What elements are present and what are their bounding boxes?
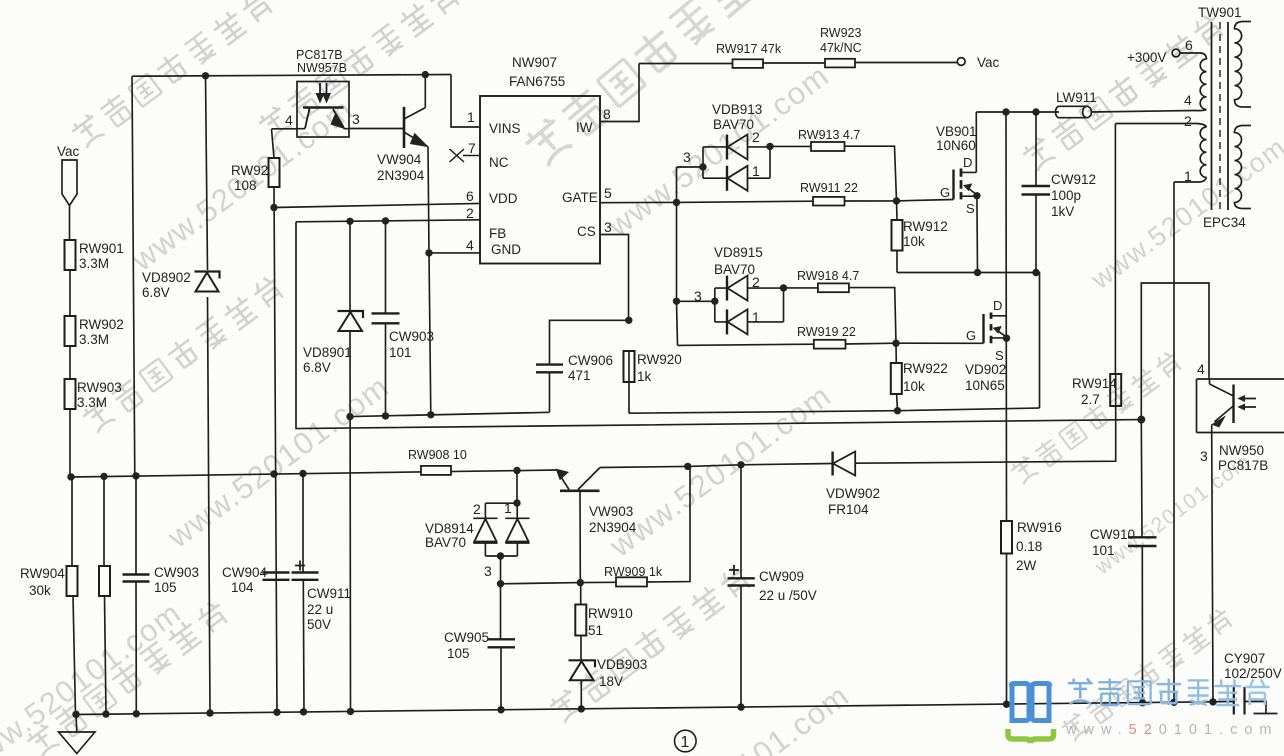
svg-text:2: 2	[1184, 113, 1192, 129]
diode pair VD8914 BAV70	[473, 471, 529, 584]
svg-text:3.3M: 3.3M	[77, 395, 107, 410]
capacitor CW909 22u/50V electrolytic	[728, 465, 755, 707]
node dot VD902 source	[1003, 335, 1010, 342]
svg-text:1: 1	[467, 109, 475, 125]
svg-text:GATE: GATE	[562, 190, 598, 205]
transformer primary winding pins 6-4	[1180, 53, 1207, 111]
wire transformer pin1 down to ground rail	[1173, 182, 1175, 702]
svg-text:22 u: 22 u	[307, 602, 333, 617]
svg-text:CW903: CW903	[154, 565, 199, 580]
ground symbol	[59, 715, 96, 754]
wire left vcc rail x=274 (PC817 pin4 / RW92 / CW904)	[272, 129, 278, 712]
node dots VD8915	[673, 284, 787, 305]
node dots collector line	[684, 461, 745, 470]
svg-text:FAN6755: FAN6755	[509, 74, 565, 89]
svg-text:TW901: TW901	[1198, 5, 1242, 20]
svg-text:VDB903: VDB903	[597, 657, 647, 672]
svg-text:RW901: RW901	[79, 241, 124, 256]
svg-text:5: 5	[604, 185, 612, 201]
wire emitter bus (long horizontal to VW903 emitter)	[71, 470, 556, 477]
node dots VD8914	[497, 499, 521, 587]
wire RW903 down to emitter bus	[69, 409, 71, 477]
VD8914 pin numbers	[473, 500, 512, 579]
svg-text:105: 105	[447, 646, 470, 661]
svg-text:VD902: VD902	[965, 362, 1006, 377]
svg-text:NW907: NW907	[512, 55, 557, 70]
svg-text:108: 108	[234, 178, 257, 193]
capacitor CW903 105 (bottom left)	[123, 476, 150, 714]
svg-text:CW909: CW909	[759, 569, 804, 584]
wire pin2 FB line	[296, 220, 480, 222]
svg-text:2: 2	[473, 501, 481, 517]
svg-text:2: 2	[466, 205, 474, 221]
pin7 NC no-connect X	[450, 149, 481, 162]
svg-text:30k: 30k	[29, 583, 51, 598]
svg-text:RW903: RW903	[77, 380, 122, 395]
resistor RW903 3.3M	[65, 379, 76, 409]
wire long vertical top rail to RW916 to ground	[1005, 112, 1008, 704]
transistor VW904 2N3904	[404, 107, 429, 148]
wire VW903 collector line (to VDW902 and RW914)	[600, 406, 1116, 468]
svg-text:101: 101	[389, 345, 412, 360]
svg-text:1k: 1k	[637, 369, 652, 384]
svg-text:1: 1	[504, 500, 512, 516]
svg-text:6: 6	[466, 188, 474, 204]
svg-text:3.3M: 3.3M	[79, 332, 109, 347]
wire transformer pin2 horizontal	[1115, 123, 1197, 125]
resistor RW901 3.3M	[65, 240, 76, 270]
svg-text:S: S	[966, 201, 975, 216]
svg-text:105: 105	[154, 580, 177, 595]
svg-text:18V: 18V	[599, 674, 623, 689]
wire FB-net vertical x=1141 and NW950 pin4 hook	[1141, 283, 1209, 703]
svg-text:RW914: RW914	[1072, 376, 1117, 391]
svg-text:GND: GND	[491, 242, 521, 257]
transformer TW901 core	[1212, 22, 1229, 210]
svg-text:BAV70: BAV70	[713, 117, 754, 132]
VD8915 pin numbers	[694, 274, 760, 325]
svg-text:www.520101.com: www.520101.com	[161, 368, 396, 555]
transformer pin numbers	[1184, 37, 1193, 184]
svg-text:www.520101.com: www.520101.com	[603, 377, 838, 564]
wire top +rail to LW911	[976, 111, 1059, 113]
svg-text:CW905: CW905	[444, 630, 489, 645]
resistor RW908 10 (on emitter bus)	[421, 466, 451, 475]
svg-text:RW902: RW902	[79, 317, 124, 332]
IC NW907 FAN6755	[480, 96, 600, 264]
symbol page number 1 circle	[675, 730, 697, 752]
wire zener-net horizontal to CW906	[350, 412, 550, 416]
transistor VD902 10N65 MOSFET	[984, 313, 1007, 344]
svg-text:102/250V: 102/250V	[1224, 666, 1282, 681]
svg-text:+300V: +300V	[1127, 50, 1166, 65]
resistor RW909 1k	[616, 577, 647, 586]
svg-text:22 u /50V: 22 u /50V	[759, 588, 817, 603]
capacitor CW906 471	[536, 320, 629, 412]
node dots VDB913	[699, 143, 773, 171]
capacitor CY907 102/250V	[1234, 687, 1278, 715]
svg-text:3: 3	[694, 288, 702, 304]
svg-text:104: 104	[231, 580, 254, 595]
wire pin6 VDD line	[274, 203, 480, 207]
diode pair VDB913 BAV70	[677, 135, 771, 191]
wire VB901 drain up to +rail	[975, 112, 977, 172]
svg-text:CW911: CW911	[307, 586, 351, 601]
svg-text:51: 51	[588, 623, 603, 638]
svg-text:100p: 100p	[1051, 188, 1081, 203]
svg-text:NC: NC	[489, 155, 509, 170]
node Vac input terminal	[62, 160, 77, 206]
svg-text:VD8914: VD8914	[425, 521, 474, 536]
svg-text:VINS: VINS	[489, 121, 521, 136]
wire RW917/RW923 line to Vac	[639, 63, 957, 64]
svg-text:IW: IW	[576, 120, 593, 135]
svg-text:Vac: Vac	[977, 55, 1000, 70]
node dot base	[577, 579, 584, 586]
svg-text:471: 471	[568, 368, 591, 383]
logo chinese title glyphs	[1068, 678, 1270, 705]
wire RW902-RW903	[69, 346, 71, 379]
svg-text:3: 3	[683, 149, 691, 165]
VB901 terminal letters	[940, 155, 975, 216]
wire RW904 branch	[72, 477, 76, 715]
wire bottom ground rail	[76, 702, 1234, 715]
zener VDB903 18V	[569, 660, 596, 709]
node junction dots on emitter bus	[67, 467, 520, 481]
wire PC817 pin4 to rail	[272, 128, 298, 130]
svg-text:RW908 10: RW908 10	[408, 448, 467, 462]
resistor RW92 108	[269, 158, 280, 187]
wire VW904 emitter down to GND net	[428, 147, 431, 415]
svg-text:RW917 47k: RW917 47k	[716, 42, 782, 56]
svg-text:10N65: 10N65	[965, 378, 1005, 393]
svg-text:VW904: VW904	[377, 152, 422, 167]
wire RW901-RW902	[69, 270, 71, 316]
node dots top rail	[1002, 108, 1039, 115]
svg-text:VD8902: VD8902	[142, 270, 191, 285]
resistor RW918 4.7 with wires	[784, 283, 897, 343]
svg-text:10k: 10k	[903, 379, 925, 394]
svg-text:RW912: RW912	[903, 219, 948, 234]
svg-text:10N60: 10N60	[936, 138, 976, 153]
wire pin4 GND line	[429, 252, 480, 254]
svg-text:PC817B: PC817B	[1218, 458, 1268, 473]
capacitor CW912 100p 1kV	[1022, 112, 1051, 273]
resistor RW917 47k	[733, 59, 764, 68]
capacitor CW911 22u 50V electrolytic	[292, 474, 319, 712]
svg-text:2N3904: 2N3904	[377, 168, 425, 183]
svg-text:RW910: RW910	[588, 606, 633, 621]
svg-text:RW913 4.7: RW913 4.7	[798, 128, 860, 142]
svg-text:D: D	[993, 298, 1002, 313]
resistor parallel with RW904	[99, 477, 110, 715]
svg-text:3: 3	[604, 219, 612, 235]
resistor RW910 51 chain	[575, 583, 586, 660]
svg-text:RW922: RW922	[903, 361, 948, 376]
diode pair VD8915 BAV70	[677, 276, 784, 335]
svg-text:VW903: VW903	[589, 504, 633, 519]
resistor RW916 0.18 2W	[1001, 521, 1012, 554]
svg-text:2N3904: 2N3904	[589, 520, 637, 535]
node dot FB-net	[1137, 416, 1145, 424]
svg-text:4: 4	[1197, 361, 1205, 377]
svg-text:8: 8	[603, 106, 611, 122]
svg-text:G: G	[966, 328, 976, 343]
resistor RW922 10k chain	[891, 343, 902, 411]
resistor RW913 4.7 with wires	[770, 142, 897, 201]
node dot RW919/RW922	[892, 340, 899, 347]
wire FB left leg down and long FB line to right	[296, 222, 1141, 429]
svg-text:6.8V: 6.8V	[142, 285, 170, 300]
svg-text:RW92: RW92	[231, 163, 268, 178]
svg-text:3: 3	[352, 111, 360, 127]
svg-text:3: 3	[484, 563, 492, 579]
svg-text:BAV70: BAV70	[714, 262, 755, 277]
wire pin3 CS dogleg down through RW920	[600, 235, 629, 414]
svg-text:0.18: 0.18	[1016, 539, 1042, 554]
svg-text:LW911: LW911	[1056, 90, 1097, 105]
svg-text:D: D	[963, 155, 972, 170]
resistor RW914 2.7 chain	[1110, 124, 1121, 407]
svg-text:Vac: Vac	[57, 144, 80, 159]
wire pin8 IW dogleg up to RW917 line	[600, 64, 639, 122]
svg-text:RW911 22: RW911 22	[800, 181, 858, 195]
wire mid rail (VB901 S / VD902 D)	[897, 273, 1040, 409]
svg-text:2: 2	[752, 129, 760, 145]
svg-text:1: 1	[752, 163, 760, 179]
node dot CS sense	[894, 407, 901, 414]
optocoupler NW950 labels	[1197, 361, 1208, 464]
capacitor CW904 104	[263, 573, 290, 580]
svg-text:BAV70: BAV70	[425, 535, 466, 550]
svg-text:3: 3	[1200, 448, 1208, 464]
svg-text:6.8V: 6.8V	[303, 360, 331, 375]
svg-text:CW903: CW903	[389, 329, 434, 344]
node dot VDD-rail	[270, 204, 277, 211]
transistor VW903 2N3904	[556, 468, 601, 583]
svg-text:CY907: CY907	[1224, 651, 1265, 666]
node dots mid rail	[974, 269, 1040, 276]
svg-text:47k/NC: 47k/NC	[820, 41, 862, 55]
node dot CS/CW906	[625, 317, 632, 324]
svg-text:50V: 50V	[307, 617, 331, 632]
node dots top wire	[202, 71, 429, 80]
wire LW911 to transformer pin4	[1091, 111, 1196, 113]
svg-text:RW920: RW920	[637, 352, 682, 367]
resistor RW912 10k chain	[892, 201, 903, 273]
resistor RW920 1k	[624, 351, 635, 382]
svg-text:1: 1	[1184, 168, 1192, 184]
svg-text:FB: FB	[489, 226, 506, 241]
svg-text:S: S	[995, 348, 1004, 363]
node +300V terminal	[1172, 49, 1180, 57]
transformer primary winding pins 2-1	[1174, 124, 1207, 183]
svg-text:RW904: RW904	[20, 566, 65, 581]
logo book icon blue pages	[1011, 684, 1049, 721]
capacitor CW910 101	[1128, 537, 1157, 546]
transistor VB901 10N60 MOSFET	[954, 169, 977, 200]
svg-text:2W: 2W	[1016, 558, 1037, 573]
svg-text:NW957B: NW957B	[297, 61, 347, 75]
wire RW919 line / VD902 gate line	[678, 343, 984, 345]
svg-text:2.7: 2.7	[1081, 392, 1100, 407]
wire NW950 pin3 down to ground rail	[1212, 433, 1213, 702]
wire VD8902 rail x=206	[206, 76, 211, 713]
node Vac terminal circle	[957, 58, 965, 66]
zener VD8902 6.8V	[195, 272, 220, 292]
svg-text:1: 1	[681, 734, 690, 751]
VDB913 pin numbers	[683, 129, 760, 179]
node dot VB901 source	[973, 192, 980, 199]
transformer secondary winding upper	[1235, 22, 1252, 108]
optocoupler NW957B PC817B box	[297, 82, 349, 138]
svg-text:7: 7	[468, 140, 476, 156]
svg-text:RW909 1k: RW909 1k	[604, 565, 663, 579]
capacitor CW903 101	[372, 221, 400, 416]
svg-text:3.3M: 3.3M	[79, 256, 109, 271]
wire PC817 pin3 to VW904 base	[349, 128, 404, 130]
svg-text:EPC34: EPC34	[1203, 215, 1246, 230]
wire left rail x=132 down to bus	[132, 76, 135, 476]
svg-text:FR104: FR104	[828, 502, 869, 517]
transformer secondary winding lower	[1235, 126, 1252, 209]
wire VW904 collector up to top wire	[424, 75, 426, 108]
resistor RW904 30k	[67, 566, 78, 596]
wire pin1 VINS dogleg	[451, 75, 480, 128]
wire Vac to RW901	[69, 206, 71, 241]
svg-text:CW912: CW912	[1051, 172, 1096, 187]
svg-text:101: 101	[1092, 543, 1115, 558]
svg-text:4: 4	[466, 237, 474, 253]
IC pin numbers	[466, 106, 612, 253]
svg-text:1: 1	[752, 309, 760, 325]
wire top-left horizontal	[132, 75, 451, 77]
svg-text:VD8901: VD8901	[303, 345, 352, 360]
svg-text:VB901: VB901	[936, 124, 977, 139]
svg-text:RW918 4.7: RW918 4.7	[797, 269, 859, 283]
inductor LW911	[1056, 106, 1092, 117]
resistor RW923 47k/NC	[825, 59, 855, 68]
svg-text:www.520101.com: www.520101.com	[621, 677, 856, 756]
svg-text:VDD: VDD	[489, 191, 518, 206]
VD902 terminal letters	[966, 298, 1004, 363]
svg-text:PC817B: PC817B	[296, 48, 343, 62]
svg-text:VDB913: VDB913	[712, 102, 762, 117]
optocoupler NW957B internals: light arrows and phototransistor	[297, 83, 349, 130]
logo green swoosh	[1008, 729, 1054, 743]
svg-text:1kV: 1kV	[1051, 204, 1074, 219]
wire CS sense line RW920 to RW922 bottom	[629, 408, 1040, 413]
svg-text:4: 4	[285, 112, 293, 128]
svg-text:RW919 22: RW919 22	[797, 325, 856, 339]
svg-text:10k: 10k	[903, 234, 925, 249]
node dots FB line	[346, 217, 389, 225]
capacitor CW905 105	[488, 584, 516, 710]
svg-text:2: 2	[752, 274, 760, 290]
zener VD8901 6.8V	[338, 221, 364, 711]
node dots bottom rail	[72, 698, 1216, 718]
svg-text:G: G	[940, 185, 950, 200]
node dot GND line	[425, 249, 432, 256]
svg-text:NW950: NW950	[1219, 443, 1264, 458]
svg-text:CW910: CW910	[1090, 527, 1135, 542]
svg-text:CW906: CW906	[568, 353, 613, 368]
wire RW909 line (base line)	[501, 466, 691, 583]
resistor RW902 3.3M	[65, 316, 76, 346]
wire gate-branch vertical x=677	[677, 167, 678, 345]
resistor RW911 22	[813, 197, 845, 206]
wire VB901 source down to mid rail	[976, 196, 979, 273]
svg-text:6: 6	[1185, 37, 1193, 53]
svg-text:VD8915: VD8915	[714, 245, 763, 260]
svg-text:www.520101.com: www.520101.com	[1065, 722, 1278, 738]
svg-text:www.520101.com: www.520101.com	[601, 57, 836, 244]
node dots GATE line	[673, 197, 900, 206]
wire pin5 GATE line	[600, 200, 954, 203]
svg-text:CS: CS	[577, 224, 596, 239]
svg-text:RW923: RW923	[820, 26, 862, 40]
resistor RW919 22	[814, 340, 846, 349]
svg-text:CW904: CW904	[222, 565, 268, 580]
svg-text:VDW902: VDW902	[826, 486, 880, 501]
svg-text:4: 4	[1184, 92, 1192, 108]
svg-text:RW916: RW916	[1017, 520, 1062, 535]
node dots zener-net	[346, 411, 434, 420]
diode VDW902 FR104	[833, 452, 856, 476]
optocoupler NW950 PC817B	[1197, 379, 1284, 433]
